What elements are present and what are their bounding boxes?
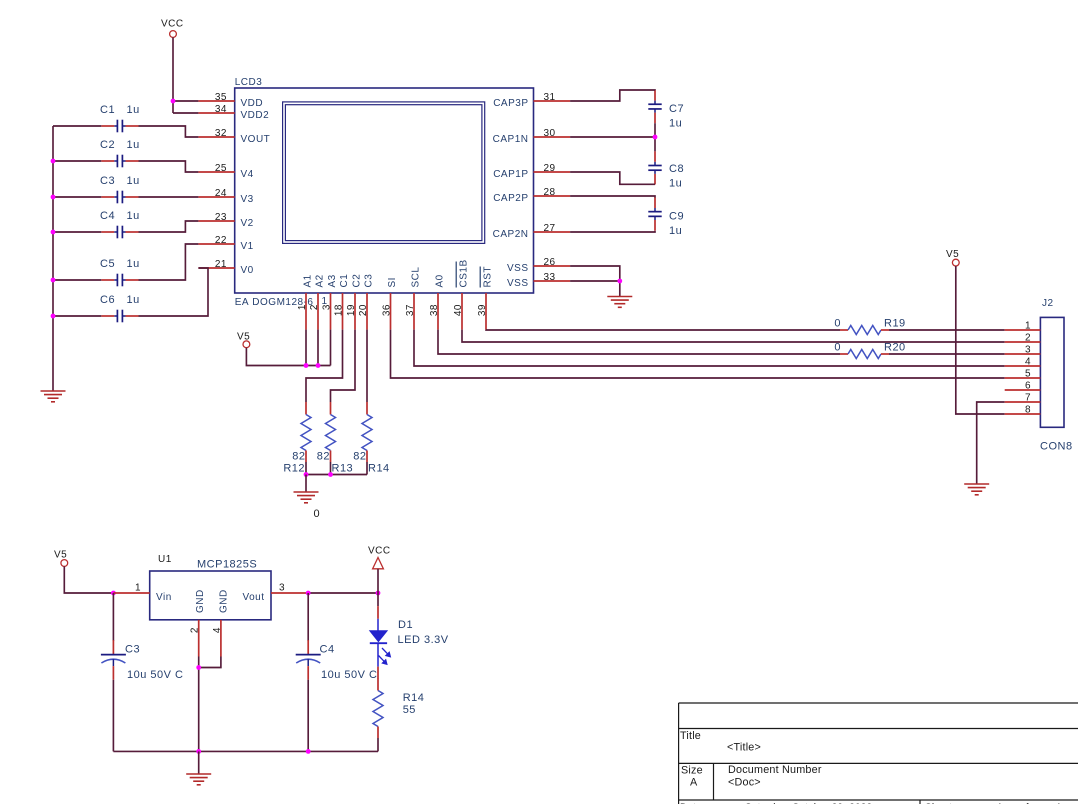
LCD3 pin 37 SCL (bottom) xyxy=(413,293,415,330)
resistor R14 55 xyxy=(377,678,379,691)
svg-text:C2: C2 xyxy=(352,274,363,288)
capacitor C2 1u xyxy=(101,160,114,162)
wire RST pin39 to R19 (J2 pin1 row) xyxy=(486,329,840,331)
svg-text:R14: R14 xyxy=(403,692,425,704)
svg-text:1u: 1u xyxy=(669,118,682,130)
LCD screen inner rectangle xyxy=(283,102,485,244)
svg-text:V0: V0 xyxy=(241,265,254,276)
svg-text:1: 1 xyxy=(297,304,308,310)
junction R13/rail xyxy=(328,472,333,477)
svg-text:10u 50V C: 10u 50V C xyxy=(321,669,377,681)
LED emission arrows xyxy=(379,648,391,664)
U1 pin 1 Vin xyxy=(113,592,149,594)
wire C1 left lead xyxy=(53,125,101,127)
svg-text:8: 8 xyxy=(1025,405,1031,416)
svg-text:A2: A2 xyxy=(315,274,326,287)
svg-text:23: 23 xyxy=(215,212,227,223)
svg-text:22: 22 xyxy=(215,235,227,246)
ground symbol (regulator) xyxy=(186,773,211,775)
regulator U1 MCP1825S body xyxy=(150,571,271,620)
wire C3 to V3 pin 24 xyxy=(139,196,199,198)
U1 pin 3 Vout xyxy=(271,592,308,594)
wire C9 bottom to pin27 CAP2N xyxy=(570,231,655,232)
svg-text:R13: R13 xyxy=(332,463,354,475)
wire C1 pin18 to R12 xyxy=(306,330,343,402)
svg-text:<Title>: <Title> xyxy=(727,742,761,754)
capacitor C5 1u xyxy=(101,279,114,281)
LCD3 pin 39 RST (bottom) xyxy=(485,293,487,330)
wire C4 to V2 pin 23 xyxy=(139,221,199,232)
wire C5 left lead xyxy=(53,279,101,281)
wire C3 pin20 to R14 xyxy=(366,330,368,402)
svg-text:1u: 1u xyxy=(669,225,682,237)
wire C6 left lead xyxy=(53,315,101,317)
LCD3 pin 23 V2 (left) xyxy=(198,220,234,222)
svg-text:1u: 1u xyxy=(127,139,140,151)
svg-text:C1: C1 xyxy=(100,104,115,116)
svg-text:0: 0 xyxy=(314,508,321,520)
wire VCC to VDD/VDD2 xyxy=(172,37,174,113)
wire pin28 CAP2P to C9 top xyxy=(570,196,655,198)
svg-text:GND: GND xyxy=(195,589,206,613)
svg-text:D1: D1 xyxy=(398,619,413,631)
junction VCC/VDD xyxy=(171,99,176,104)
svg-text:3: 3 xyxy=(279,583,285,594)
wire pin30 CAP1N to C7/C8 node xyxy=(570,136,655,138)
LCD module LCD3 body xyxy=(235,88,534,293)
LCD3 pin 36 SI (bottom) xyxy=(390,293,392,330)
svg-text:MCP1825S: MCP1825S xyxy=(197,559,257,571)
capacitor C3 1u xyxy=(101,196,114,198)
wire R20 to J2 pin3 xyxy=(889,353,1005,355)
svg-text:C4: C4 xyxy=(320,644,335,656)
wire resistor bottoms rail xyxy=(305,462,307,475)
svg-text:82: 82 xyxy=(292,451,305,463)
junction GND pins xyxy=(196,665,201,670)
wire SCL pin37 to J2 pin4 xyxy=(414,330,1005,366)
LCD3 pin 3 A3 (bottom) xyxy=(330,293,332,330)
ground symbol (J2 pin7) xyxy=(964,483,989,485)
svg-text:A1: A1 xyxy=(303,274,314,287)
LCD3 pin 21 V0 (left) xyxy=(198,267,234,269)
ground symbol (VSS) xyxy=(607,296,632,298)
power symbol V5 (below LCD) xyxy=(243,341,250,348)
wire V5 to Vin xyxy=(64,566,113,593)
svg-text:55: 55 xyxy=(403,704,416,716)
svg-text:1u: 1u xyxy=(127,294,140,306)
svg-text:V5: V5 xyxy=(946,249,959,260)
junction R12/rail xyxy=(304,472,309,477)
ground symbol (R12-R14) xyxy=(294,491,319,493)
title block frame xyxy=(679,703,1078,804)
svg-text:VDD2: VDD2 xyxy=(241,110,270,121)
J2 pin 7 xyxy=(1005,401,1041,403)
wire C4 bottom to rail xyxy=(307,680,309,752)
svg-text:4: 4 xyxy=(212,627,223,633)
svg-text:VCC: VCC xyxy=(161,19,184,30)
svg-text:R14: R14 xyxy=(368,463,390,475)
resistor R14 82 xyxy=(366,402,368,415)
svg-text:1: 1 xyxy=(135,583,141,594)
svg-text:2: 2 xyxy=(309,304,320,310)
svg-text:C6: C6 xyxy=(100,294,115,306)
LCD3 pin 31 CAP3P (right) xyxy=(534,100,571,102)
junction A1/V5 xyxy=(304,363,309,368)
svg-text:J2: J2 xyxy=(1042,298,1054,309)
svg-text:V3: V3 xyxy=(241,194,254,205)
svg-text:10u 50V C: 10u 50V C xyxy=(127,669,183,681)
LCD3 pin 25 V4 (left) xyxy=(198,171,234,173)
svg-text:28: 28 xyxy=(544,187,556,198)
LCD3 pin 22 V1 (left) xyxy=(198,243,234,245)
svg-text:C1: C1 xyxy=(339,274,350,288)
svg-text:C2: C2 xyxy=(100,139,115,151)
wire V5 to J2 pin8 xyxy=(956,266,1005,414)
capacitor C8 1u xyxy=(654,151,656,162)
capacitor C6 1u xyxy=(101,315,114,317)
svg-text:34: 34 xyxy=(215,104,227,115)
LCD3 pin 40 CS1B (bottom) xyxy=(461,293,463,330)
svg-text:V4: V4 xyxy=(241,169,254,180)
wire VCC arrow to node xyxy=(377,569,379,593)
wire C5 to V1 pin 22 xyxy=(139,244,199,280)
svg-text:Document Number: Document Number xyxy=(728,764,822,776)
wire Vout to VCC/LED node xyxy=(308,592,378,594)
power symbol V5 (regulator) xyxy=(61,560,68,567)
J2 pin 3 xyxy=(1005,353,1041,355)
svg-text:C8: C8 xyxy=(669,163,684,175)
svg-text:40: 40 xyxy=(453,304,464,316)
svg-text:18: 18 xyxy=(334,304,345,316)
wire rail to ground xyxy=(305,475,307,493)
resistor R19 0 ohm xyxy=(840,329,848,331)
svg-text:V2: V2 xyxy=(241,218,254,229)
LCD3 pin 24 V3 (left) xyxy=(198,196,234,198)
wire C3 bottom to rail xyxy=(112,680,114,752)
LCD3 pin 29 CAP1P (right) xyxy=(534,171,571,173)
svg-text:C9: C9 xyxy=(669,211,684,223)
svg-text:SCL: SCL xyxy=(411,267,422,288)
svg-text:V5: V5 xyxy=(237,331,250,342)
svg-text:7: 7 xyxy=(1025,393,1031,404)
junction rail/C4 xyxy=(306,749,311,754)
LCD3 pin 33 VSS (right) xyxy=(534,280,571,282)
LCD3 pin 19 C2 (bottom) xyxy=(354,293,356,330)
LCD3 pin 27 CAP2N (right) xyxy=(534,231,571,233)
svg-text:CAP1P: CAP1P xyxy=(493,169,528,180)
capacitor C9 1u xyxy=(654,197,656,208)
junction rail/GND column xyxy=(196,749,201,754)
svg-text:21: 21 xyxy=(215,259,227,270)
svg-text:1u: 1u xyxy=(127,258,140,270)
ground symbol (left bus) xyxy=(41,390,66,392)
svg-text:3: 3 xyxy=(322,304,333,310)
svg-text:A3: A3 xyxy=(327,274,338,287)
wire rail to ground symbol xyxy=(198,751,200,774)
svg-text:CS1B: CS1B xyxy=(459,259,470,287)
svg-text:1: 1 xyxy=(1025,321,1031,332)
LCD3 pin 34 VDD2 (left) xyxy=(198,112,234,114)
wire R19 to J2 pin1 xyxy=(889,329,1005,331)
J2 pin 8 xyxy=(1005,413,1041,415)
junction C7-C8-pin30 xyxy=(653,135,658,140)
J2 pin 2 xyxy=(1005,341,1041,343)
wire J2 pin7 to ground xyxy=(977,402,1005,484)
wire C2 left lead xyxy=(53,160,101,162)
svg-text:<Doc>: <Doc> xyxy=(728,777,761,789)
svg-text:31: 31 xyxy=(544,92,556,103)
capacitor C3 10u 50V C xyxy=(112,593,114,641)
svg-text:VOUT: VOUT xyxy=(241,134,271,145)
wire V5 to A1/A2/A3 xyxy=(246,348,330,366)
junction VCC/LED node xyxy=(376,591,381,596)
power symbol VCC (regulator, arrow) xyxy=(373,558,384,569)
svg-text:6: 6 xyxy=(1025,381,1031,392)
svg-text:5: 5 xyxy=(1025,369,1031,380)
svg-text:SI: SI xyxy=(387,277,398,287)
LCD3 pin 26 VSS (right) xyxy=(534,265,571,267)
junction C4/Vout xyxy=(306,591,311,596)
LCD3 pin 2 A2 (bottom) xyxy=(317,293,319,330)
U1 pin 4 GND xyxy=(220,620,222,657)
wire LED cathode to R14 xyxy=(377,667,379,679)
svg-text:4: 4 xyxy=(1025,357,1031,368)
J2 pin 1 xyxy=(1005,329,1041,331)
svg-text:CAP2N: CAP2N xyxy=(493,229,529,240)
overline for RST xyxy=(479,267,481,288)
svg-text:VDD: VDD xyxy=(241,98,264,109)
svg-text:32: 32 xyxy=(215,128,227,139)
J2 pin 4 xyxy=(1005,365,1041,367)
U1 pin 2 GND xyxy=(198,620,200,657)
svg-text:R20: R20 xyxy=(884,342,906,354)
capacitor C1 1u xyxy=(101,125,114,127)
svg-text:CAP2P: CAP2P xyxy=(493,193,528,204)
svg-text:R19: R19 xyxy=(884,318,906,330)
svg-text:0: 0 xyxy=(834,342,841,354)
power symbol V5 (J2) xyxy=(952,259,959,266)
svg-text:R12: R12 xyxy=(283,463,305,475)
wire pin31 CAP3P to C7 top xyxy=(570,90,655,101)
wire C3 left lead xyxy=(53,196,101,198)
overline for CS1B xyxy=(455,262,457,288)
svg-text:19: 19 xyxy=(346,304,357,316)
wire GND pin4 to pin2 column xyxy=(199,657,221,668)
svg-text:33: 33 xyxy=(544,272,556,283)
svg-text:VSS: VSS xyxy=(507,263,529,274)
capacitor C7 1u xyxy=(654,90,656,101)
svg-text:C3: C3 xyxy=(364,274,375,288)
power symbol VCC (top) xyxy=(170,31,177,38)
svg-text:35: 35 xyxy=(215,92,227,103)
svg-text:1u: 1u xyxy=(669,178,682,190)
svg-text:V5: V5 xyxy=(54,550,67,561)
junction C3/Vin xyxy=(111,591,116,596)
LCD3 pin 32 VOUT (left) xyxy=(198,136,234,138)
svg-text:29: 29 xyxy=(544,163,556,174)
svg-text:1u: 1u xyxy=(127,104,140,116)
svg-text:C3: C3 xyxy=(100,175,115,187)
svg-text:VSS: VSS xyxy=(507,278,529,289)
J2 pin 6 xyxy=(1005,389,1041,391)
capacitor C4 10u 50V C xyxy=(307,593,309,641)
LCD3 pin 1 A1 (bottom) xyxy=(305,293,307,330)
LCD3 pin 35 VDD (left) xyxy=(198,100,234,102)
svg-text:26: 26 xyxy=(544,257,556,268)
svg-text:Vout: Vout xyxy=(242,592,264,603)
ground rail wire (regulator) xyxy=(113,750,378,752)
capacitor C4 1u xyxy=(101,231,114,233)
svg-text:LED 3.3V: LED 3.3V xyxy=(398,634,449,646)
wire C4 left lead xyxy=(53,231,101,233)
svg-text:2: 2 xyxy=(190,627,201,633)
svg-text:38: 38 xyxy=(429,304,440,316)
LCD3 pin 38 A0 (bottom) xyxy=(437,293,439,330)
svg-text:C3: C3 xyxy=(125,644,140,656)
svg-text:CON8: CON8 xyxy=(1040,441,1073,453)
wire SI pin36 to J2 pin5 xyxy=(391,330,1005,378)
svg-text:39: 39 xyxy=(477,304,488,316)
svg-text:0: 0 xyxy=(834,318,841,330)
ground bus wire (left) xyxy=(52,126,54,391)
wire VSS pins 26/33 to ground xyxy=(570,266,620,297)
LCD3 pin 18 C1 (bottom) xyxy=(342,293,344,330)
svg-text:GND: GND xyxy=(218,589,229,613)
svg-text:82: 82 xyxy=(353,451,366,463)
resistor R12 82 xyxy=(305,402,307,415)
LCD3 pin 20 C3 (bottom) xyxy=(366,293,368,330)
svg-text:82: 82 xyxy=(317,451,330,463)
svg-text:U1: U1 xyxy=(158,554,172,565)
svg-text:30: 30 xyxy=(544,128,556,139)
svg-text:3: 3 xyxy=(1025,345,1031,356)
svg-text:A0: A0 xyxy=(435,274,446,287)
resistor R13 82 xyxy=(330,402,332,415)
junction VSS xyxy=(617,279,622,284)
svg-text:36: 36 xyxy=(382,304,393,316)
svg-text:V1: V1 xyxy=(241,241,254,252)
svg-text:RST: RST xyxy=(483,266,494,288)
wire A0 pin38 to R20 (J2 pin3 row) xyxy=(438,330,840,354)
wire C8 bottom to pin29 CAP1P xyxy=(570,172,655,184)
svg-text:CAP1N: CAP1N xyxy=(493,134,529,145)
svg-text:LCD3: LCD3 xyxy=(235,77,263,88)
LCD3 pin 30 CAP1N (right) xyxy=(534,136,571,138)
svg-text:Title: Title xyxy=(680,730,701,742)
wire CS1B pin40 to J2 pin2 xyxy=(462,330,1005,342)
svg-text:2: 2 xyxy=(1025,333,1031,344)
svg-text:37: 37 xyxy=(405,304,416,316)
svg-text:24: 24 xyxy=(215,188,227,199)
junction dots on ground bus xyxy=(51,159,56,164)
svg-text:C7: C7 xyxy=(669,103,684,115)
wire C2 to V4 pin 25 xyxy=(139,161,199,172)
resistor R20 0 ohm xyxy=(840,353,848,355)
svg-text:VCC: VCC xyxy=(368,546,391,557)
svg-text:Vin: Vin xyxy=(156,592,172,603)
LED D1 LED 3.3V xyxy=(377,593,379,606)
wire C1 to VOUT pin 32 xyxy=(139,126,199,137)
connector J2 CON8 body xyxy=(1040,317,1064,427)
wire C2 pin19 to R13 xyxy=(331,330,356,402)
svg-text:C5: C5 xyxy=(100,258,115,270)
svg-text:20: 20 xyxy=(358,304,369,316)
svg-text:27: 27 xyxy=(544,223,556,234)
LCD3 pin 28 CAP2P (right) xyxy=(534,195,571,197)
wire R14 to rail xyxy=(377,738,379,751)
svg-text:C4: C4 xyxy=(100,210,115,222)
J2 pin 5 xyxy=(1005,377,1041,379)
svg-text:A: A xyxy=(690,777,698,789)
svg-text:Size: Size xyxy=(681,765,703,777)
svg-text:25: 25 xyxy=(215,163,227,174)
svg-text:1u: 1u xyxy=(127,210,140,222)
svg-text:1u: 1u xyxy=(127,175,140,187)
wire GND pin2 down to rail xyxy=(198,657,200,752)
wire C6 to V0 pin 21 xyxy=(139,268,209,316)
svg-text:CAP3P: CAP3P xyxy=(493,98,528,109)
junction A2/V5 xyxy=(316,363,321,368)
